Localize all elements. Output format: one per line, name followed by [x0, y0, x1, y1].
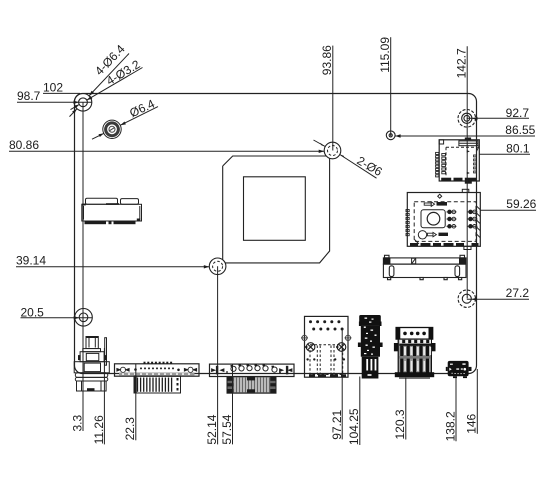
- DIMM socket: [383, 255, 466, 279]
- svg-text:11.26: 11.26: [92, 415, 106, 444]
- module KEY arrow icon: [424, 202, 447, 207]
- D-sub 2 circles row: [231, 366, 277, 373]
- dim 97.21 line: [341, 329, 343, 439]
- svg-text:120.3: 120.3: [393, 409, 407, 439]
- mounting hole top-left: [74, 94, 92, 112]
- svg-text:20.5: 20.5: [21, 306, 45, 320]
- module right hatch: [477, 206, 481, 238]
- RJ45 jack screws: [306, 343, 346, 352]
- svg-text:27.2: 27.2: [506, 286, 530, 300]
- D-sub 1 pin dots: [134, 367, 180, 371]
- svg-text:138.2: 138.2: [443, 411, 457, 441]
- small hole (115.09/86.55): [386, 131, 395, 140]
- svg-text:22.3: 22.3: [123, 417, 137, 441]
- dim 80.86 line: [9, 150, 325, 152]
- svg-text:80.86: 80.86: [9, 138, 39, 152]
- leader 4-O6.4: [70, 54, 130, 117]
- dim 3.3 line: [82, 102, 84, 431]
- D-sub 2 screw arrows: [212, 366, 293, 374]
- 2-O6 hole B: [209, 258, 226, 275]
- D-sub connector 2 (serial): [210, 364, 295, 376]
- small connector (USB type C): [446, 361, 472, 378]
- D-sub 1 hatch strip: [119, 373, 195, 376]
- svg-text:142.7: 142.7: [455, 48, 469, 78]
- svg-text:59.26: 59.26: [506, 197, 536, 211]
- dim 102 line: [43, 92, 80, 94]
- svg-text:97.21: 97.21: [330, 409, 344, 439]
- dim 120.3 line: [405, 378, 407, 440]
- svg-text:3.3: 3.3: [70, 414, 84, 431]
- D-sub 2 body: [227, 377, 276, 394]
- leader 2-O6: [314, 140, 377, 178]
- svg-text:86.55: 86.55: [505, 123, 535, 137]
- svg-text:93.86: 93.86: [320, 45, 334, 75]
- dim 57.54 line: [232, 364, 234, 444]
- board outline: [75, 94, 477, 374]
- mounting hole bottom-right: [458, 290, 475, 307]
- leader 4-O3.2: [71, 68, 143, 110]
- RJ45 dashed port: [310, 345, 343, 375]
- dim 59.26 line: [480, 209, 536, 211]
- RJ45 side screws: [301, 335, 352, 340]
- svg-text:92.7: 92.7: [506, 106, 530, 120]
- dim 146 line: [476, 369, 478, 434]
- dim 142.7 line: [466, 46, 468, 298]
- mounting hole bottom-left: [75, 309, 93, 327]
- left connector CN: [82, 198, 142, 221]
- module bullet rows: [447, 210, 478, 228]
- CPU heatsink pad outline: [217, 156, 334, 263]
- dim 104.25 line: [359, 377, 361, 446]
- dim 92.7 line: [467, 117, 529, 119]
- svg-text:104.25: 104.25: [347, 408, 361, 445]
- power jack: [74, 337, 109, 392]
- module bottom-left icon: [415, 231, 449, 244]
- svg-text:39.14: 39.14: [16, 254, 46, 268]
- dim 22.3 line: [135, 364, 137, 440]
- dim 39.14 line: [16, 266, 210, 268]
- dim 27.2 line: [467, 298, 529, 300]
- module bottom dark strip: [410, 243, 479, 246]
- O6.4 hole: [103, 120, 121, 138]
- mounting hole top-right: [458, 110, 476, 128]
- svg-text:98.7: 98.7: [17, 89, 41, 103]
- HDMI connector: [396, 328, 433, 340]
- dim 52.14 line: [217, 266, 219, 444]
- D-sub connector 1 (VGA): [115, 364, 200, 376]
- CPU die square: [244, 177, 306, 241]
- dim 86.55 line: [395, 135, 535, 137]
- dimension arrowheads at holes: [74, 101, 478, 320]
- dim 93.86 line: [332, 46, 334, 151]
- RJ45 connector: [305, 316, 349, 377]
- svg-text:115.09: 115.09: [378, 37, 392, 73]
- top-right USB component (80.1): [439, 140, 479, 181]
- D-sub 1 screw arrows: [117, 367, 197, 372]
- svg-text:102: 102: [43, 80, 63, 94]
- HDMI body: [395, 339, 434, 379]
- 2-O6 hole A: [324, 142, 341, 159]
- dim 138.2 line: [455, 377, 457, 441]
- dim 11.26 line: [103, 348, 105, 444]
- dim 20.5 line: [21, 317, 93, 319]
- D-sub 1 body comb: [134, 376, 181, 393]
- M.2 module (59.26): [407, 193, 480, 247]
- dim 98.7 line: [17, 101, 92, 103]
- leader O6.4: [92, 107, 158, 140]
- USB3 stack connector: [358, 315, 383, 379]
- svg-text:146: 146: [465, 413, 479, 433]
- svg-text:80.1: 80.1: [506, 141, 530, 155]
- svg-text:52.14: 52.14: [205, 414, 219, 444]
- dim 115.09 line: [390, 37, 392, 135]
- dim 80.1 line: [479, 153, 530, 155]
- svg-text:57.54: 57.54: [220, 414, 234, 444]
